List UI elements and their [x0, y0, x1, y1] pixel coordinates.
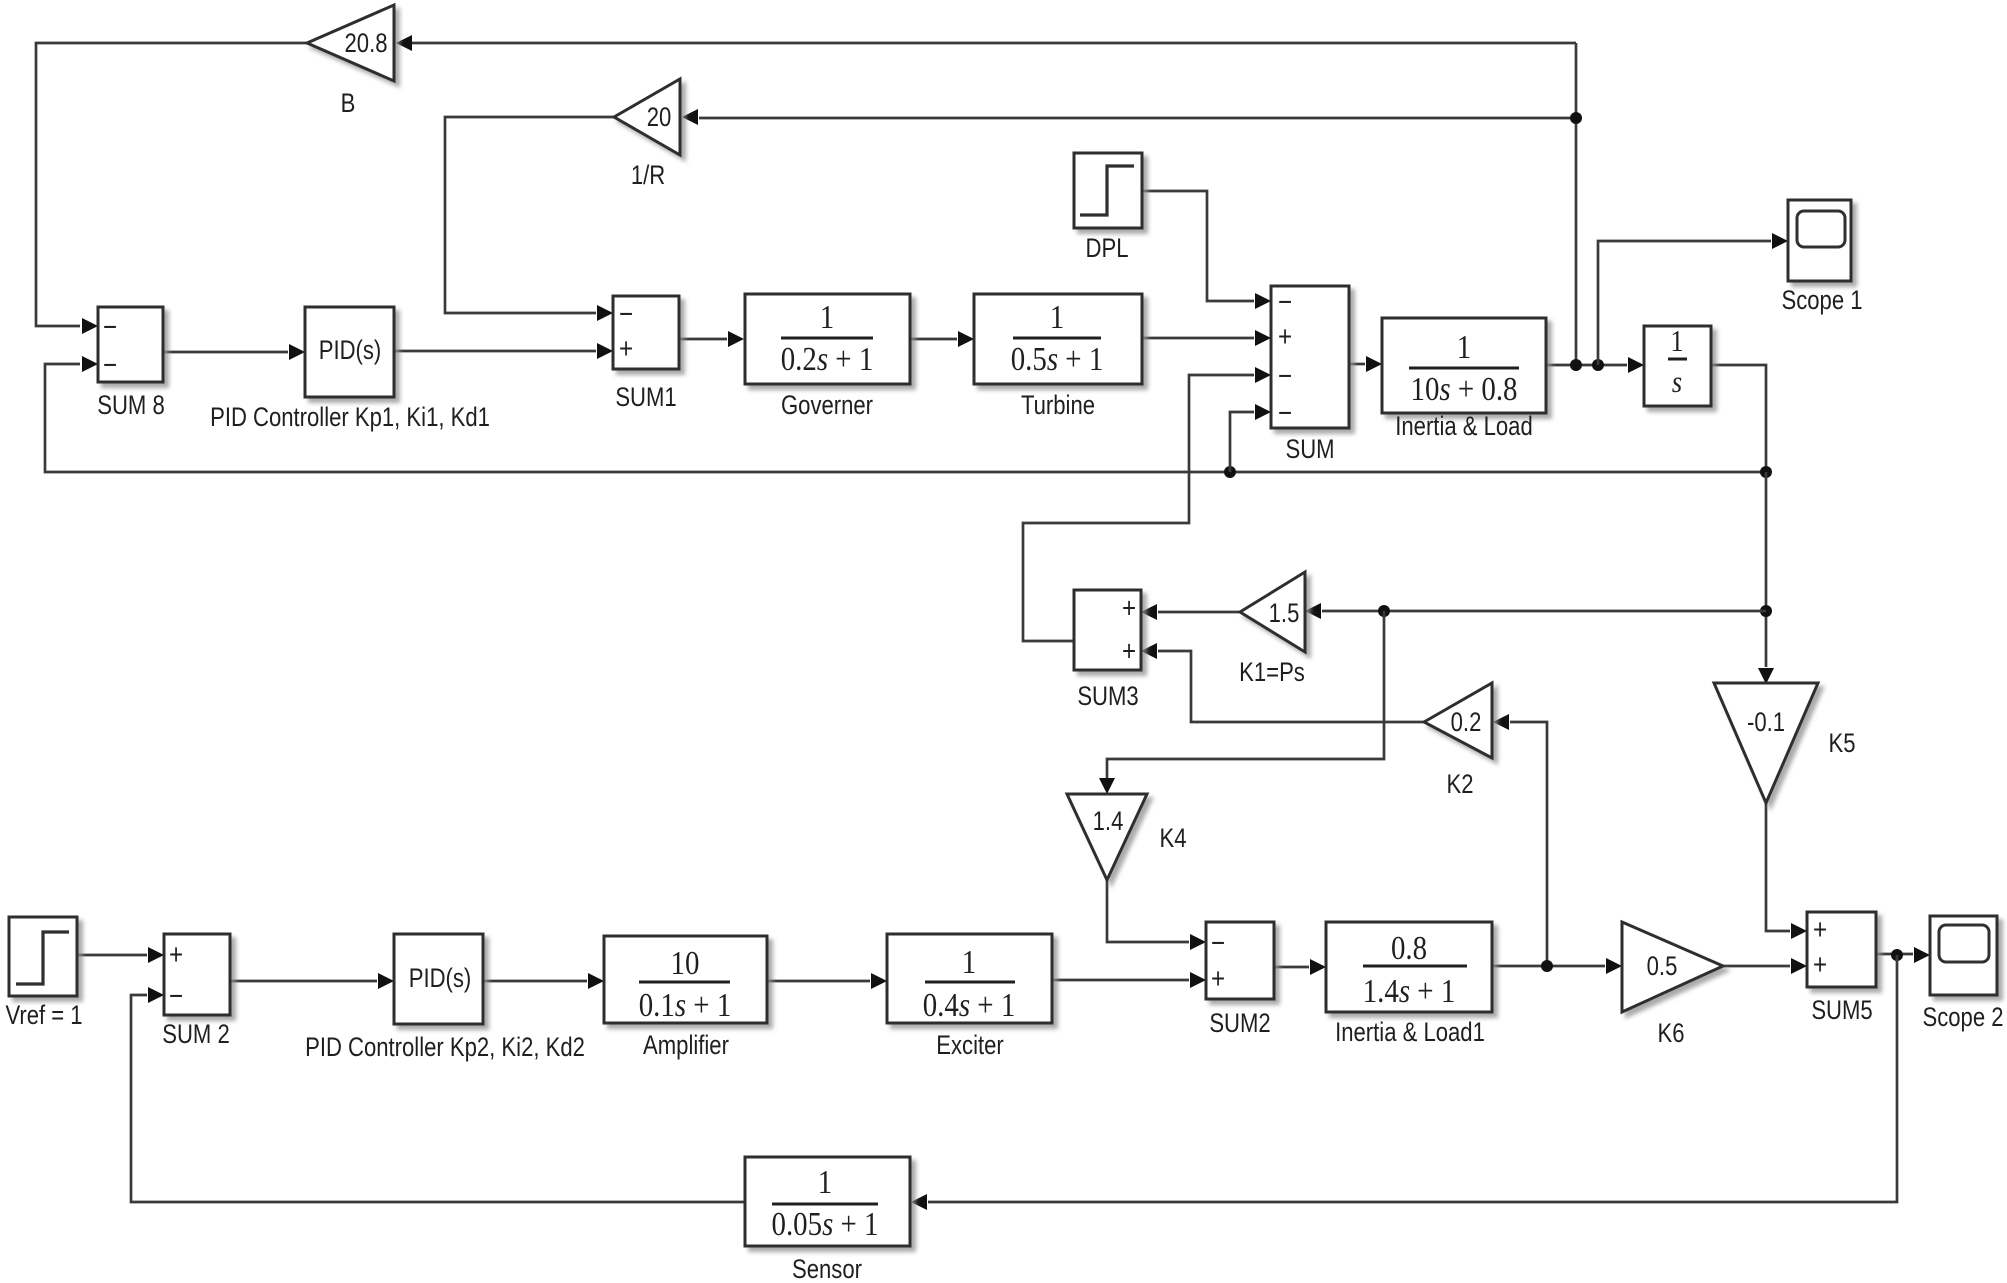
wire Exciter output to SUM2 input 2 [1052, 972, 1206, 988]
junction node scope 1 branch [1592, 359, 1604, 371]
wire long frequency feedback to SUM 8 input 2 [45, 356, 1766, 472]
svg-text:SUM 2: SUM 2 [162, 1020, 229, 1049]
sum block SUM 2 [162, 934, 230, 1050]
svg-text:Governer: Governer [781, 391, 873, 420]
sum block SUM1 [613, 296, 679, 413]
wire node to gain K1=Ps input [1305, 603, 1766, 619]
svg-text:0.5s + 1: 0.5s + 1 [1011, 340, 1104, 378]
wire feedback branch up to SUM input 4 [1230, 404, 1271, 472]
wire SUM 2 output to PID Controller 2 [230, 973, 394, 989]
svg-text:0.05s + 1: 0.05s + 1 [771, 1205, 878, 1243]
svg-text:0.4s + 1: 0.4s + 1 [923, 986, 1016, 1024]
wire Inertia & Load output to integrator 1/s [1546, 357, 1644, 373]
svg-text:+: + [619, 332, 633, 365]
svg-text:Inertia & Load: Inertia & Load [1395, 412, 1532, 441]
wire 1/R output to SUM1 input 1 [445, 117, 614, 321]
sum block SUM (4 inputs) [1271, 285, 1349, 464]
sum block SUM2 [1206, 922, 1274, 1039]
svg-text:0.1s + 1: 0.1s + 1 [639, 986, 732, 1024]
svg-text:−: − [1278, 285, 1292, 318]
gain K2 (0.2) [1424, 683, 1492, 800]
svg-text:SUM 8: SUM 8 [97, 391, 164, 420]
wire SUM3 output to SUM input 3 [1023, 367, 1271, 641]
transfer function block Inertia & Load1 0.8/(1.4s+1) [1326, 922, 1492, 1048]
svg-text:−: − [1211, 926, 1225, 959]
wire gain K1=Ps output to SUM3 input 1 [1141, 604, 1240, 620]
wire PID Controller 2 output to Amplifier [483, 973, 604, 989]
gain K5 (-0.1) pointing down [1714, 683, 1856, 803]
gain K4 (1.4) pointing down [1067, 794, 1187, 880]
wire Inertia & Load1 output to gain K6 [1492, 958, 1622, 974]
svg-text:+: + [1813, 948, 1827, 981]
transfer function block Sensor 1/(0.05s+1) [745, 1157, 910, 1283]
svg-text:DPL: DPL [1086, 234, 1129, 263]
wire feedback down and left to Sensor input [911, 955, 1897, 1210]
transfer function block Governer 1/(0.2s+1) [745, 294, 910, 421]
wire branch down to gain K4 input [1099, 611, 1384, 794]
svg-text:1: 1 [820, 298, 834, 336]
svg-text:−: − [169, 979, 183, 1012]
wire SUM2 output to Inertia & Load1 [1274, 959, 1326, 975]
wire integrator output down to feedback node [1711, 365, 1766, 472]
svg-text:10s + 0.8: 10s + 0.8 [1410, 370, 1517, 408]
svg-text:+: + [1122, 591, 1136, 624]
wire SUM output to Inertia & Load [1349, 356, 1382, 372]
wire tap to gain 1/R input [682, 109, 1576, 125]
svg-text:1: 1 [1050, 298, 1064, 336]
svg-text:0.8: 0.8 [1391, 929, 1427, 967]
svg-text:K5: K5 [1828, 729, 1855, 758]
wire DPL output to SUM input 1 [1142, 191, 1271, 309]
scope block Scope 2 [1922, 916, 2003, 1033]
svg-text:B: B [341, 89, 356, 118]
transfer function block Turbine 1/(0.5s+1) [974, 294, 1142, 421]
gain 1/R (20) [614, 79, 680, 191]
svg-text:Amplifier: Amplifier [643, 1031, 729, 1060]
svg-text:Sensor: Sensor [792, 1255, 862, 1283]
integrator block 1/s [1644, 324, 1711, 406]
sum block SUM3 [1074, 590, 1141, 712]
svg-text:−: − [1278, 359, 1292, 392]
svg-text:1: 1 [1457, 328, 1471, 366]
wire gain K2 output to SUM3 input 2 [1141, 643, 1424, 722]
junction node on 1/R tap [1570, 112, 1582, 124]
svg-text:K6: K6 [1657, 1019, 1684, 1048]
junction node terminal voltage tap [1541, 960, 1553, 972]
wire SUM 8 output to PID Controller 1 [163, 344, 305, 360]
svg-text:20.8: 20.8 [345, 29, 388, 58]
svg-text:Turbine: Turbine [1021, 391, 1095, 420]
junction node feedback right corner [1760, 466, 1772, 478]
svg-text:−: − [1278, 396, 1292, 429]
svg-text:Scope 2: Scope 2 [1922, 1003, 2003, 1032]
svg-text:K1=Ps: K1=Ps [1239, 658, 1305, 687]
wire Turbine output to SUM input 2 [1142, 330, 1271, 346]
svg-text:10: 10 [671, 944, 700, 982]
junction node on K1 line [1760, 605, 1772, 617]
svg-text:PID Controller Kp2, Ki2, Kd2: PID Controller Kp2, Ki2, Kd2 [305, 1033, 585, 1062]
junction node feedback to SUM branch [1224, 466, 1236, 478]
svg-text:20: 20 [647, 103, 672, 132]
svg-text:0.5: 0.5 [1647, 952, 1678, 981]
wire Vref step output to SUM 2 input 1 [77, 947, 164, 963]
svg-text:SUM2: SUM2 [1209, 1009, 1270, 1038]
wire gain K6 output to SUM5 input 2 [1723, 958, 1807, 974]
svg-text:0.2: 0.2 [1451, 708, 1482, 737]
transfer function block Amplifier 10/(0.1s+1) [604, 936, 767, 1061]
svg-text:1: 1 [818, 1163, 832, 1201]
svg-text:1.5: 1.5 [1269, 599, 1300, 628]
svg-text:K2: K2 [1446, 770, 1473, 799]
wire gain K5 output to SUM5 input 1 [1766, 803, 1807, 939]
PID controller 1 block PID(s) [210, 307, 490, 433]
svg-text:+: + [1278, 320, 1292, 353]
wire Governer output to Turbine [911, 331, 974, 347]
wire Sensor output to SUM 2 input 2 [131, 987, 745, 1202]
step source Vref = 1 [5, 917, 82, 1031]
gain K6 (0.5) pointing right [1622, 922, 1723, 1049]
svg-text:+: + [1122, 634, 1136, 667]
transfer function block Inertia & Load 1/(10s+0.8) [1382, 318, 1546, 442]
wire PID Controller 1 output to SUM1 input 2 [394, 343, 613, 359]
gain B (20.8) [307, 5, 394, 119]
step source DPL [1074, 153, 1142, 264]
wire SUM1 output to Governer [679, 331, 744, 347]
svg-text:+: + [1211, 962, 1225, 995]
svg-text:−: − [103, 310, 117, 343]
wire gain K4 output to SUM2 input 1 [1107, 880, 1206, 950]
svg-text:0.2s + 1: 0.2s + 1 [781, 340, 874, 378]
junction node frequency output [1570, 359, 1582, 371]
scope block Scope 1 [1781, 200, 1862, 316]
svg-text:s: s [1672, 365, 1682, 399]
sum block SUM 8 [97, 307, 164, 421]
svg-text:SUM3: SUM3 [1077, 682, 1138, 711]
wire Amplifier output to Exciter [767, 973, 887, 989]
svg-text:1: 1 [962, 943, 976, 981]
transfer function block Exciter 1/(0.4s+1) [887, 934, 1052, 1061]
svg-text:Exciter: Exciter [936, 1031, 1003, 1060]
wire gain B output to SUM 8 input 1 [36, 43, 307, 334]
svg-text:PID(s): PID(s) [409, 964, 472, 993]
svg-text:SUM5: SUM5 [1811, 996, 1872, 1025]
wire top node to gain B input [396, 35, 1576, 51]
wire frequency tap down from top node [1575, 43, 1578, 365]
svg-text:1: 1 [1670, 324, 1683, 358]
svg-text:1.4: 1.4 [1093, 807, 1124, 836]
wire branch to Scope 1 [1598, 233, 1788, 365]
junction node K4 branch [1378, 605, 1390, 617]
svg-text:1.4s + 1: 1.4s + 1 [1363, 972, 1456, 1010]
PID controller 2 block PID(s) [305, 934, 585, 1063]
wire node down into gain K5 [1758, 472, 1774, 684]
wire terminal voltage tap to gain K2 input [1493, 714, 1547, 966]
svg-text:PID Controller Kp1, Ki1, Kd1: PID Controller Kp1, Ki1, Kd1 [210, 403, 490, 432]
svg-text:-0.1: -0.1 [1747, 708, 1785, 737]
svg-text:SUM: SUM [1285, 435, 1334, 464]
svg-text:Inertia & Load1: Inertia & Load1 [1335, 1018, 1485, 1047]
wire SUM5 output to Scope 2 [1876, 947, 1930, 963]
svg-text:PID(s): PID(s) [319, 336, 382, 365]
svg-text:Vref = 1: Vref = 1 [5, 1001, 82, 1030]
svg-text:Scope 1: Scope 1 [1781, 286, 1862, 315]
svg-text:K4: K4 [1159, 824, 1186, 853]
junction node sensor feedback branch [1891, 949, 1903, 961]
svg-text:+: + [169, 938, 183, 971]
gain K1=Ps (1.5) [1239, 572, 1305, 688]
sum block SUM5 [1807, 912, 1876, 1026]
svg-text:−: − [619, 297, 633, 330]
svg-text:SUM1: SUM1 [615, 383, 676, 412]
svg-text:1/R: 1/R [631, 161, 665, 190]
svg-text:+: + [1813, 913, 1827, 946]
svg-text:−: − [103, 348, 117, 381]
